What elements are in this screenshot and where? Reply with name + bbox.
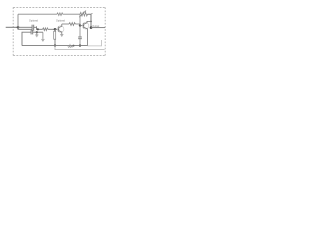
resistor R6 (small, below ground rail) xyxy=(68,46,73,48)
svg-text:Optional: Optional xyxy=(29,20,38,23)
transistor Q2 collector xyxy=(84,21,91,24)
wire: input lead xyxy=(6,26,18,28)
wire: stub down from C2 junction xyxy=(36,32,38,34)
wire: Q1 base lead xyxy=(55,28,59,30)
node: output junction xyxy=(90,26,93,29)
transistor Q2 emitter with arrow xyxy=(84,27,88,45)
wire: base node down to bias resistor xyxy=(54,29,56,31)
capacitor C1 (upper coupling) xyxy=(31,25,33,31)
transistor Q1 emitter with arrow xyxy=(59,31,62,35)
capacitor C3 (base bypass) xyxy=(78,36,82,38)
node: input junction xyxy=(17,26,20,29)
wire: top feedback rail right segment xyxy=(63,13,80,15)
ground symbol (Q1 emitter) xyxy=(60,35,63,37)
wire: feedback riser from input node up to top rail xyxy=(17,14,19,27)
wire: Q2 base node down to C3 xyxy=(79,26,81,37)
wire: ground rail xyxy=(22,45,88,47)
node: junction after C1 xyxy=(37,28,39,30)
transistor Q1 envelope xyxy=(57,26,64,33)
node: C3 ground junction xyxy=(79,44,81,46)
wire: lower branch corner xyxy=(22,32,31,45)
wire: input node to coupling caps (upper) xyxy=(18,26,32,28)
wire: output lead to right border xyxy=(91,27,105,29)
transistor Q1 collector xyxy=(59,24,62,28)
resistor R1 (small, in top rail) xyxy=(57,13,63,16)
transistor Q1 base bar xyxy=(58,27,60,32)
svg-text:Optional: Optional xyxy=(56,20,65,23)
svg-text:Output: Output xyxy=(92,25,99,28)
resistor R3 (box, base to ground) xyxy=(54,31,56,39)
wire: R2 to Q1 base node xyxy=(48,28,55,30)
wire: pot terminal stub xyxy=(91,13,93,15)
wire: lower common return (light) xyxy=(55,46,105,50)
wire: R3 to ground rail xyxy=(54,39,56,45)
resistor R2 (series, mid) xyxy=(43,28,48,31)
wire: stub above step junction xyxy=(36,26,38,27)
wire: R4 to Q2 base node xyxy=(75,24,80,26)
wire: down from lower wire at x=42.9 xyxy=(42,32,44,39)
node: Q2 base node xyxy=(79,24,81,26)
wire: C1 to step-down xyxy=(34,27,43,29)
ground symbol (under x=42.9) xyxy=(41,39,44,41)
wire: C2 to ground branch xyxy=(33,31,43,33)
potentiometer RV1 wiper arrow xyxy=(79,11,86,17)
ground symbol (under C2 junction) xyxy=(35,35,38,37)
potentiometer RV1 zigzag xyxy=(80,12,88,16)
transistor Q2 envelope xyxy=(82,22,89,29)
wire: x=80 riser top rail junction xyxy=(79,14,81,25)
node: Q1 base node xyxy=(54,28,57,31)
dashed module boundary box xyxy=(13,7,105,55)
node: collector/pot junction xyxy=(90,21,92,23)
wire: stub above ground rail at x=70 xyxy=(69,44,71,46)
wire: input node lower branch xyxy=(18,27,32,29)
wire: top feedback rail left segment xyxy=(18,13,57,15)
wire: C3 to ground rail xyxy=(79,39,81,46)
wire: Q2 base lead xyxy=(80,25,84,27)
resistor R4 (collector load) xyxy=(69,23,75,26)
node: C2 output junction xyxy=(36,31,38,33)
wire: Q1 collector to R4 xyxy=(62,23,69,25)
wire: ground rail extension (light) xyxy=(88,40,102,46)
wire: pot output to right riser xyxy=(88,14,92,27)
node: rail junction at x=73.5 xyxy=(73,45,75,47)
capacitor C2 (lower coupling) xyxy=(30,30,32,34)
transistor Q2 base bar xyxy=(83,23,85,28)
node: R3 ground junction xyxy=(54,44,56,46)
